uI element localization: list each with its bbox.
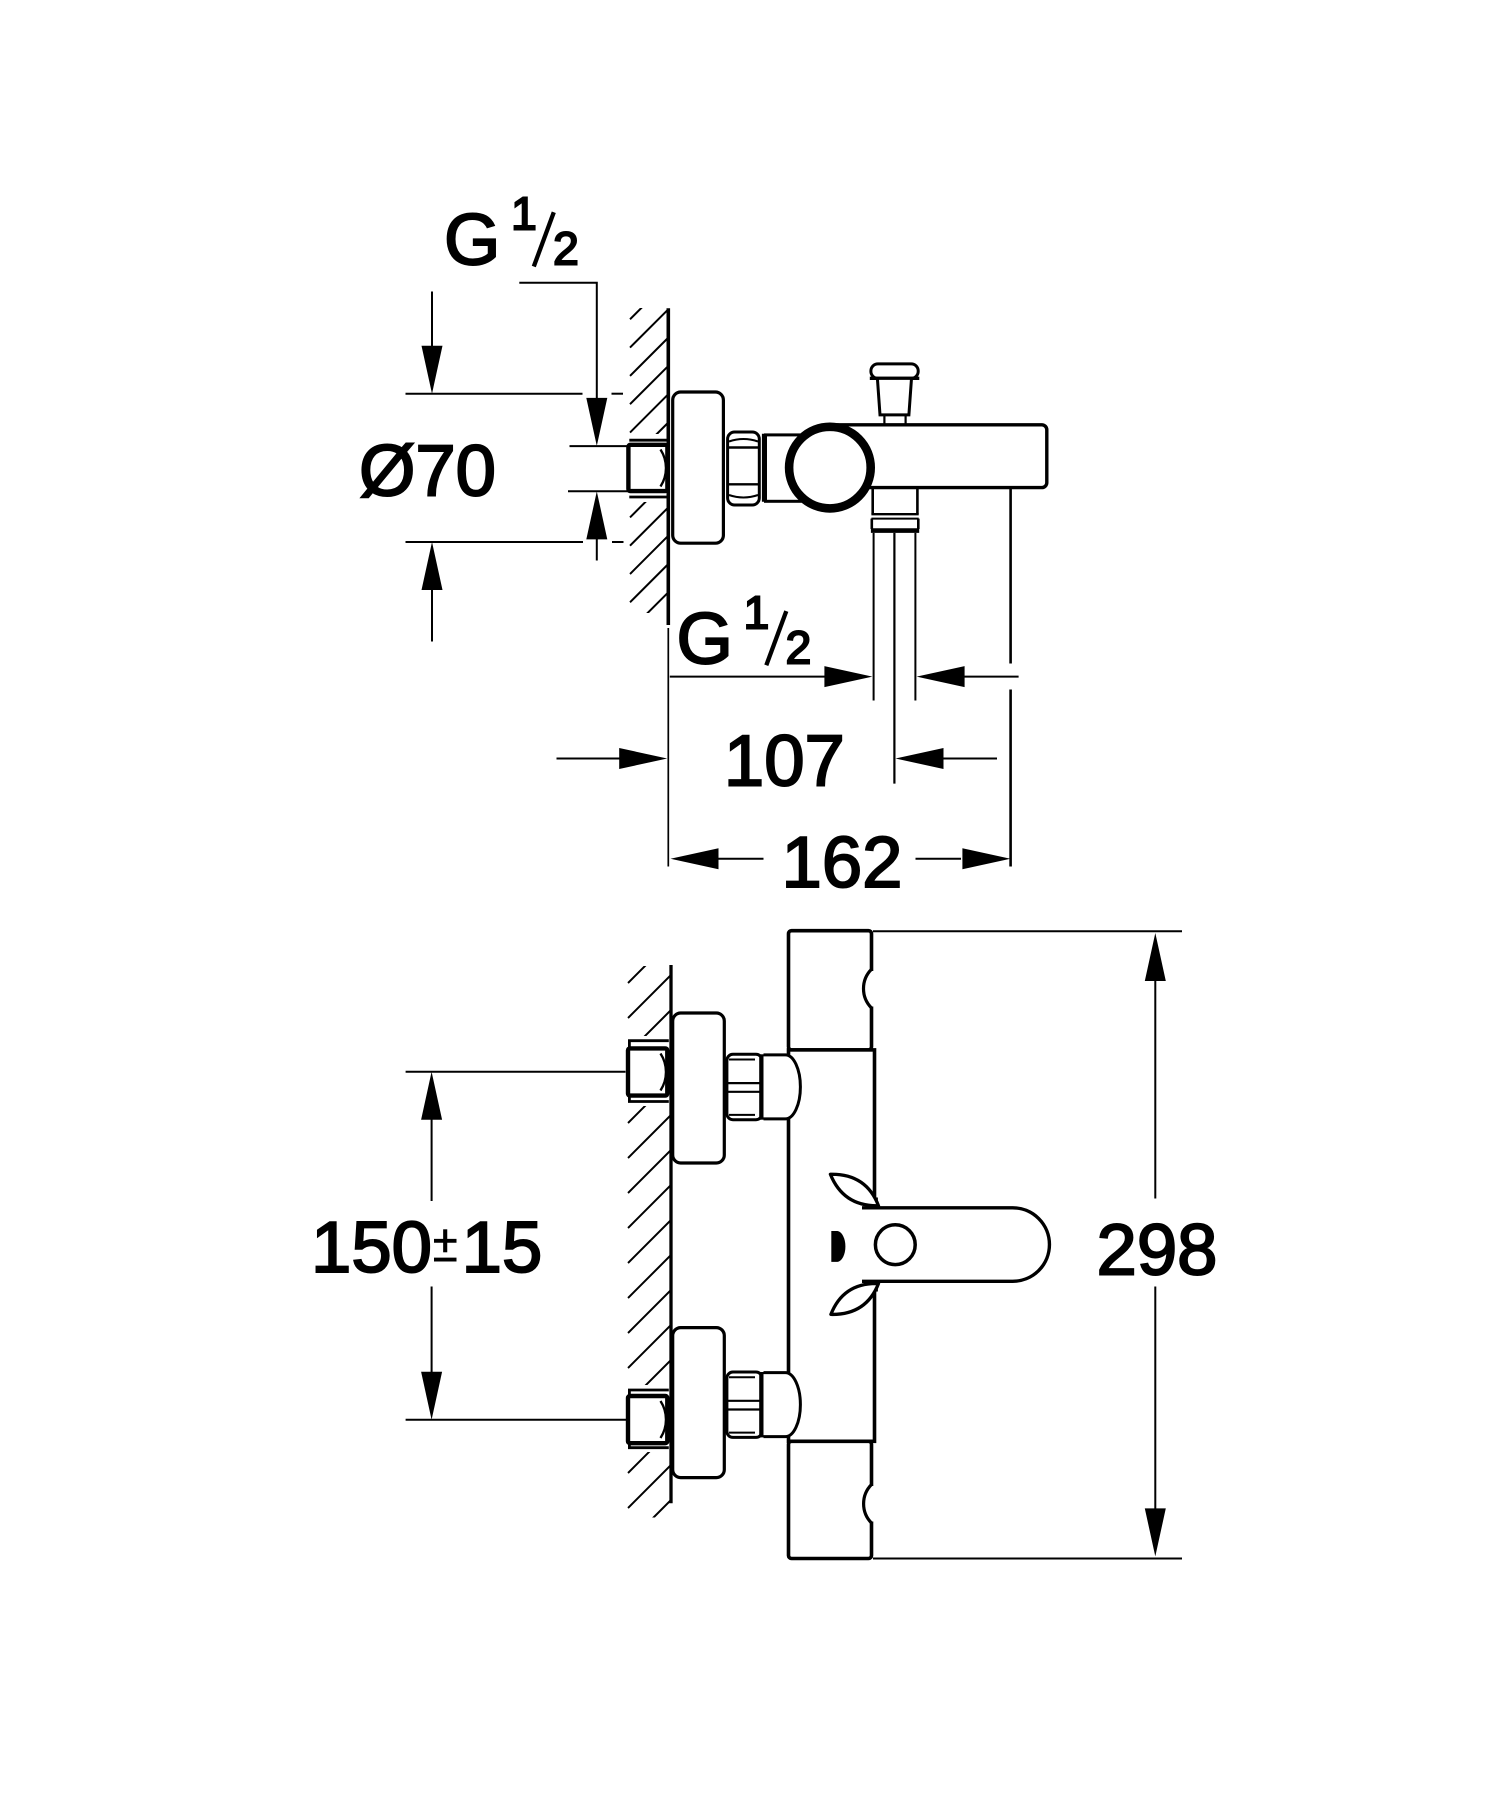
svg-text:107: 107 — [724, 721, 845, 802]
upper diverter notch — [870, 971, 878, 1007]
162 dimension — [671, 848, 719, 869]
wall hatching (side view) — [630, 281, 668, 659]
wall line — [669, 965, 672, 1503]
white clear behind pipe nut — [624, 434, 669, 502]
pipe stub lines (washer) at wall — [629, 439, 668, 442]
white clears behind nuts — [624, 1036, 670, 1106]
union flange ring (side view) — [762, 434, 766, 502]
svg-text:Ø70: Ø70 — [359, 431, 496, 512]
svg-text:G: G — [444, 200, 500, 281]
svg-text:15: 15 — [462, 1207, 543, 1288]
diverter knob cap — [871, 364, 918, 379]
spout outlet extension line (right, x=1010.6) — [1009, 489, 1012, 664]
pipe nut extension lines — [570, 445, 629, 447]
svg-text:162: 162 — [782, 822, 903, 903]
lower escutcheon (front) — [673, 1328, 725, 1478]
square pipe nut (side view) — [628, 445, 667, 491]
escutcheon (side view) — [673, 392, 724, 543]
lower washer outline — [629, 1390, 668, 1448]
lower handle wing — [831, 1283, 879, 1314]
upper escutcheon (front) — [673, 1013, 725, 1163]
thermostat handle circle (side view) — [789, 427, 871, 509]
svg-text:1: 1 — [744, 586, 770, 638]
svg-text:298: 298 — [1097, 1210, 1218, 1291]
temperature mark (black D) — [831, 1231, 845, 1262]
handle lever bar (front) — [862, 1208, 1049, 1282]
shower hose lines — [873, 533, 875, 701]
upper washer outline — [629, 1041, 668, 1102]
upper handle wing — [830, 1174, 878, 1206]
wall line — [666, 308, 670, 625]
wall extension line (thin, below) — [667, 628, 669, 867]
faucet body (front): mid block — [789, 1050, 875, 1441]
union cylinder (side view) — [766, 435, 801, 501]
O70 dimension — [406, 393, 583, 395]
298 dimension — [873, 930, 1182, 932]
faucet body (front): top block — [789, 931, 872, 1050]
wall hatching (front view) — [628, 940, 671, 1543]
lower union dome (front) — [764, 1373, 801, 1437]
upper union dome (front) — [764, 1055, 801, 1119]
svg-text:1: 1 — [511, 188, 537, 240]
lower union hex nut (front) — [727, 1372, 762, 1437]
svg-text:2: 2 — [553, 223, 579, 275]
150 +/- 15 dimension — [406, 1071, 626, 1073]
lower diverter notch — [870, 1486, 878, 1522]
svg-text:2: 2 — [786, 621, 812, 673]
107 dimension — [557, 758, 641, 760]
lower square pipe nut (front) — [628, 1396, 667, 1443]
lower arrow of G1/2 callout — [586, 491, 607, 539]
shower outlet below body — [871, 488, 874, 514]
union hex nut (side view) — [728, 432, 760, 505]
handle screw circle — [875, 1225, 915, 1265]
diverter knob stem — [877, 378, 911, 415]
faucet body (front): bottom block — [789, 1441, 872, 1558]
spout body (side view) — [826, 425, 1047, 488]
upper square pipe nut (front) — [628, 1048, 667, 1095]
svg-text:150: 150 — [311, 1207, 432, 1288]
upper union hex nut (front) — [727, 1054, 762, 1119]
handle base edge segments — [875, 1198, 878, 1208]
G1/2 leader line — [519, 283, 597, 400]
G1/2 hose dimension line — [670, 676, 846, 678]
svg-text:G: G — [677, 598, 733, 679]
